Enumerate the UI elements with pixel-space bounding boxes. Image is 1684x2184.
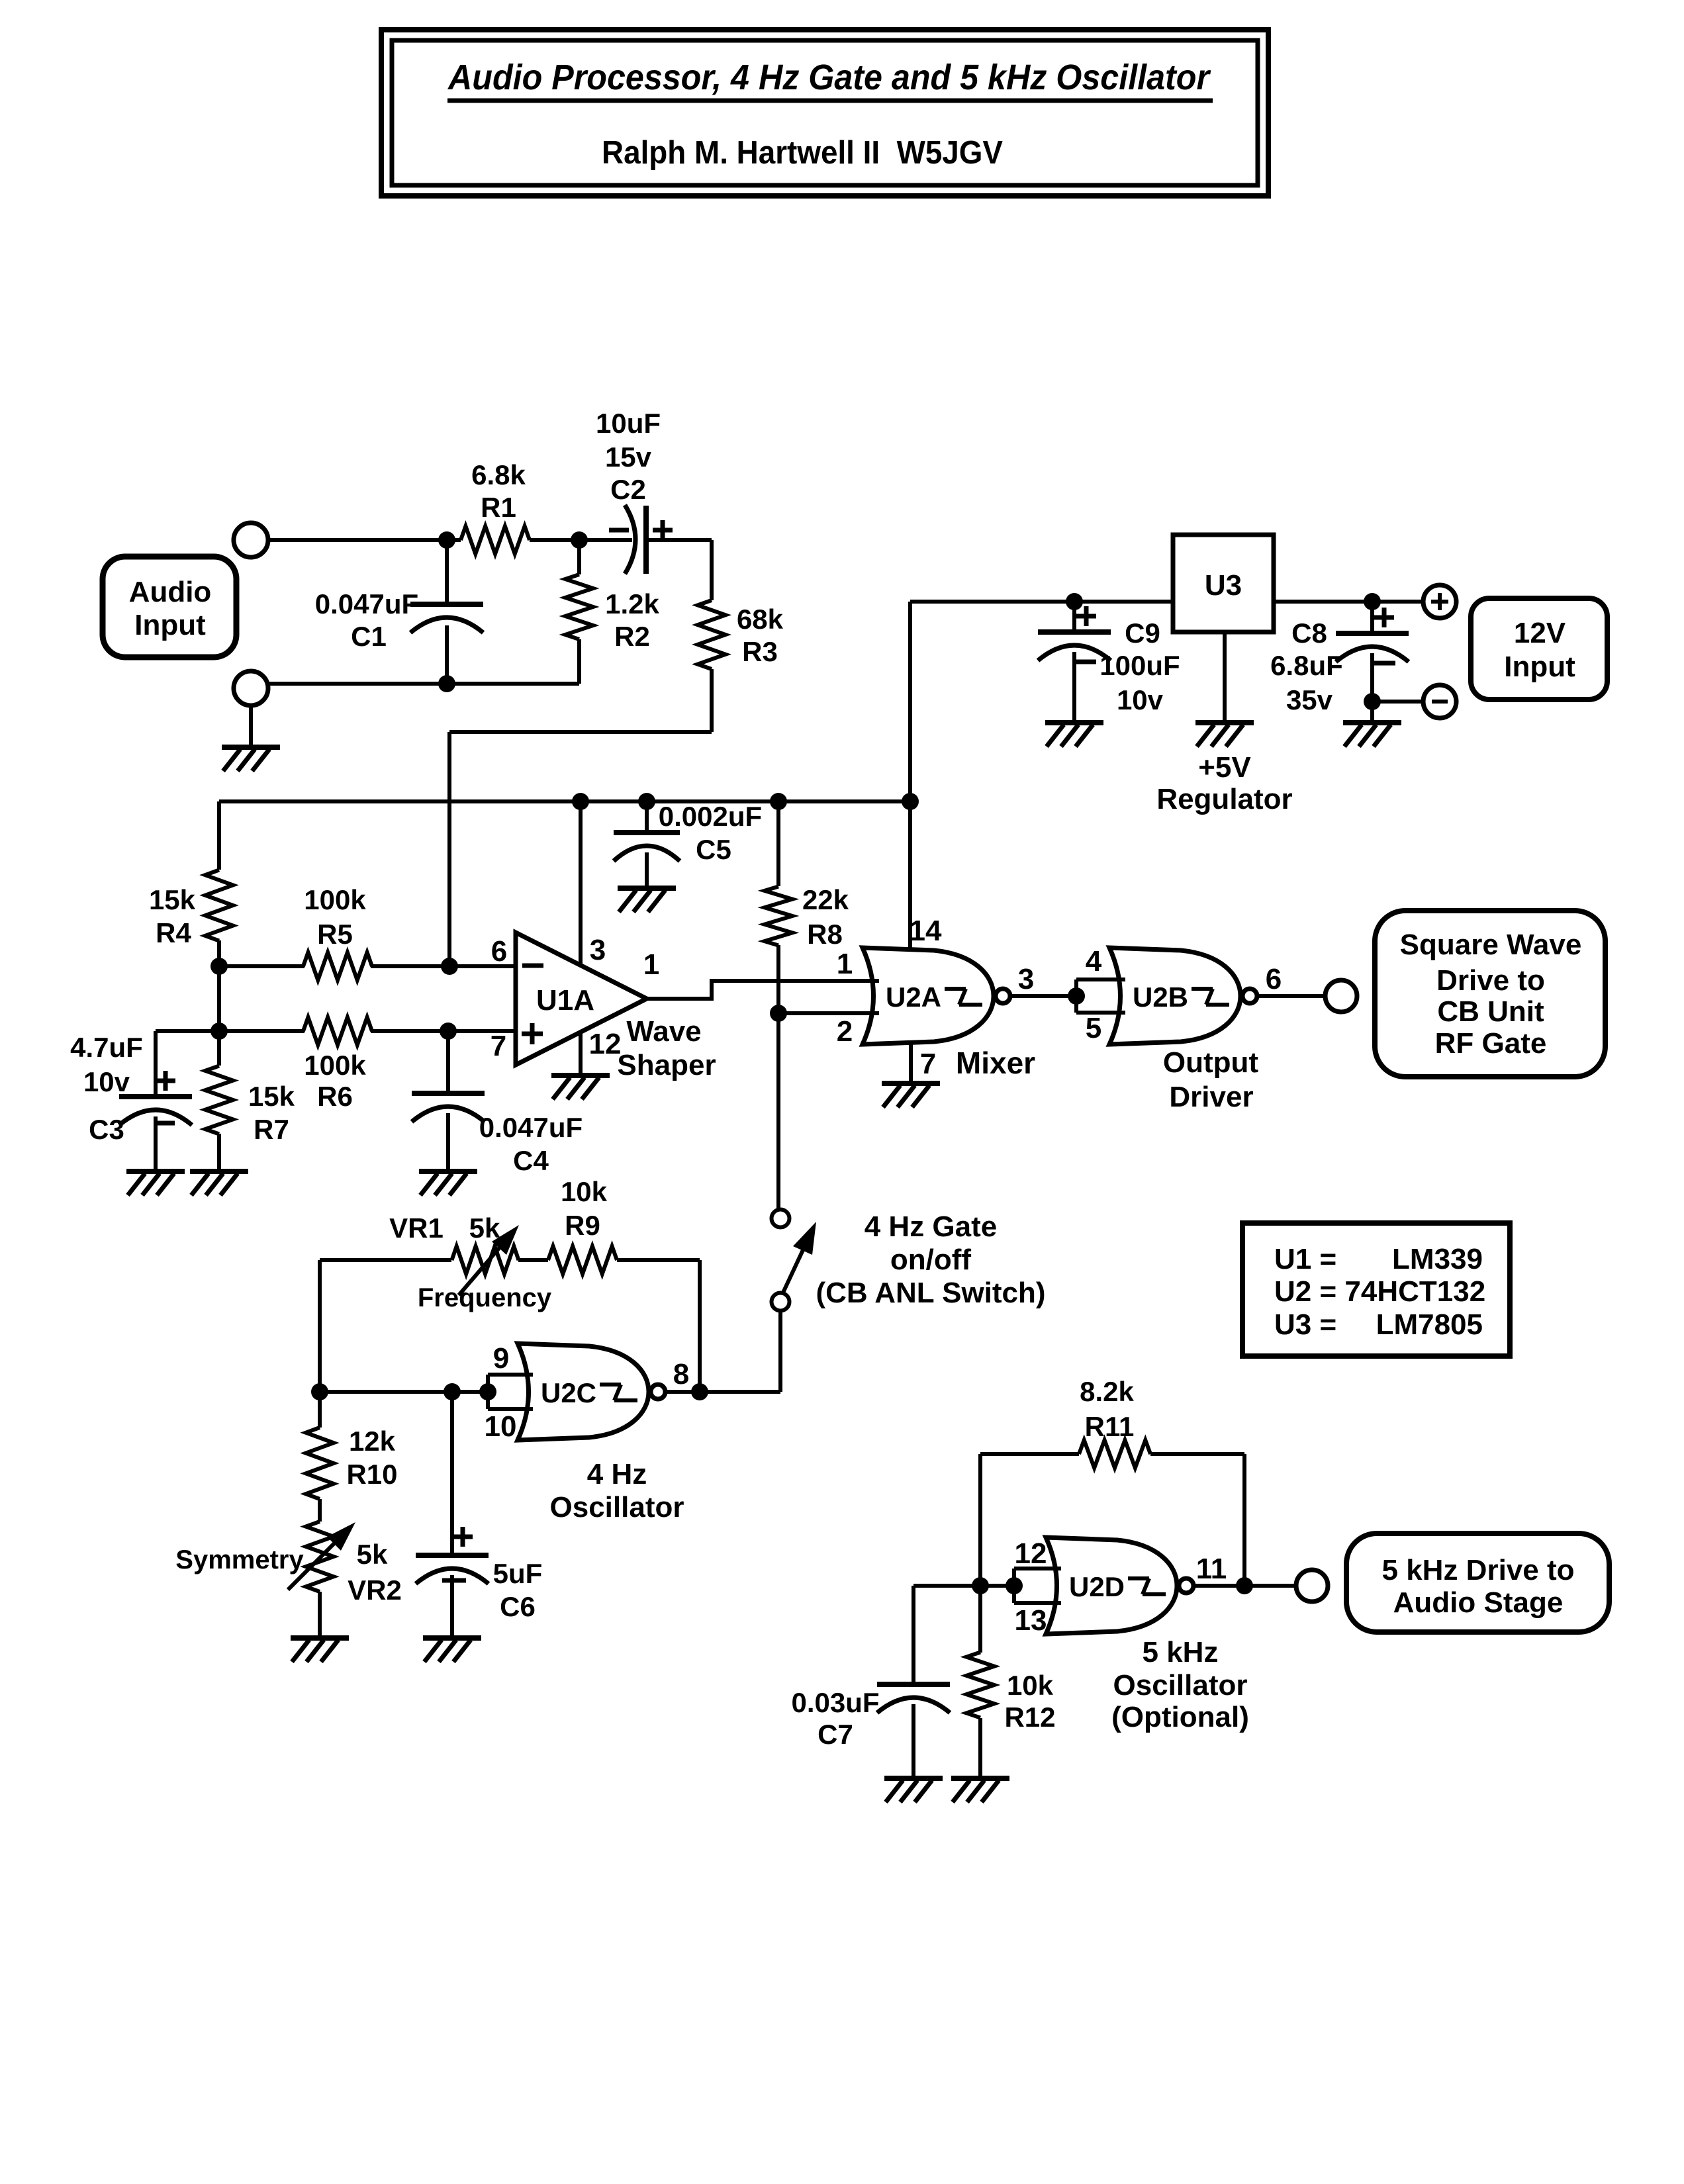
svg-text:(Optional): (Optional) (1111, 1701, 1249, 1733)
svg-text:0.047uF: 0.047uF (315, 588, 418, 619)
svg-text:5 kHz Drive to: 5 kHz Drive to (1382, 1554, 1575, 1586)
svg-text:RF Gate: RF Gate (1435, 1027, 1547, 1060)
svg-text:C7: C7 (818, 1719, 853, 1750)
svg-text:VR2: VR2 (348, 1574, 402, 1606)
svg-text:0.047uF: 0.047uF (479, 1112, 583, 1143)
svg-text:VR1: VR1 (389, 1212, 444, 1244)
svg-text:C8: C8 (1291, 617, 1327, 649)
svg-text:R12: R12 (1004, 1702, 1055, 1733)
svg-text:U1 =: U1 = (1274, 1243, 1336, 1275)
svg-text:LM339: LM339 (1392, 1243, 1483, 1275)
svg-text:13: 13 (1015, 1604, 1047, 1637)
svg-text:3: 3 (590, 934, 606, 966)
svg-text:Audio Stage: Audio Stage (1393, 1586, 1564, 1619)
svg-text:Frequency: Frequency (418, 1283, 552, 1312)
svg-text:7: 7 (491, 1030, 506, 1062)
svg-text:R3: R3 (742, 636, 778, 667)
svg-text:2: 2 (837, 1015, 853, 1048)
svg-text:6.8uF: 6.8uF (1270, 650, 1343, 681)
svg-text:4 Hz: 4 Hz (587, 1458, 647, 1490)
svg-text:10v: 10v (83, 1066, 130, 1097)
svg-text:15v: 15v (605, 441, 652, 473)
svg-text:R2: R2 (614, 621, 650, 652)
svg-text:on/off: on/off (890, 1244, 972, 1276)
svg-text:3: 3 (1018, 963, 1034, 995)
svg-text:14: 14 (910, 915, 942, 947)
svg-text:1.2k: 1.2k (605, 588, 659, 619)
svg-text:C4: C4 (513, 1145, 549, 1176)
svg-text:C3: C3 (89, 1114, 124, 1145)
svg-text:(CB ANL Switch): (CB ANL Switch) (816, 1277, 1045, 1309)
svg-text:U2D: U2D (1069, 1571, 1125, 1602)
svg-text:U2B: U2B (1133, 981, 1188, 1013)
svg-text:6: 6 (1266, 963, 1282, 995)
svg-text:5: 5 (1086, 1012, 1101, 1044)
svg-text:5k: 5k (357, 1539, 388, 1570)
svg-text:R5: R5 (317, 919, 353, 950)
svg-text:C6: C6 (500, 1591, 536, 1622)
svg-text:C2: C2 (610, 474, 646, 505)
svg-text:Oscillator: Oscillator (550, 1491, 684, 1524)
svg-text:Driver: Driver (1169, 1081, 1253, 1113)
svg-text:15k: 15k (248, 1081, 295, 1112)
svg-text:R9: R9 (565, 1210, 600, 1241)
svg-text:10v: 10v (1117, 684, 1164, 715)
svg-text:C1: C1 (351, 621, 387, 652)
svg-text:LM7805: LM7805 (1376, 1308, 1483, 1341)
svg-text:Drive to: Drive to (1436, 964, 1545, 997)
svg-text:Audio Processor, 4 Hz Gate and: Audio Processor, 4 Hz Gate and 5 kHz Osc… (447, 58, 1211, 97)
svg-text:0.03uF: 0.03uF (791, 1687, 879, 1718)
svg-text:5uF: 5uF (493, 1558, 543, 1589)
svg-text:Square Wave: Square Wave (1400, 929, 1582, 961)
svg-text:12: 12 (589, 1028, 622, 1060)
svg-text:35v: 35v (1286, 684, 1333, 715)
svg-text:5 kHz: 5 kHz (1143, 1636, 1219, 1668)
svg-text:Regulator: Regulator (1156, 783, 1292, 815)
svg-text:Audio: Audio (129, 576, 212, 608)
svg-text:R7: R7 (254, 1114, 289, 1145)
svg-text:100k: 100k (304, 884, 366, 915)
svg-text:6: 6 (491, 935, 507, 968)
svg-text:8: 8 (673, 1358, 689, 1390)
svg-text:22k: 22k (802, 884, 849, 915)
svg-text:CB Unit: CB Unit (1437, 995, 1544, 1028)
svg-text:C5: C5 (696, 834, 731, 865)
svg-text:1: 1 (643, 948, 659, 981)
svg-text:Shaper: Shaper (617, 1049, 716, 1081)
svg-text:Ralph M. Hartwell II W5JGV: Ralph M. Hartwell II W5JGV (602, 135, 1003, 171)
svg-text:6.8k: 6.8k (471, 459, 526, 490)
svg-text:Mixer: Mixer (956, 1046, 1035, 1080)
svg-text:8.2k: 8.2k (1080, 1376, 1134, 1407)
svg-text:Output: Output (1163, 1046, 1259, 1079)
svg-text:4: 4 (1086, 945, 1102, 978)
svg-text:R8: R8 (807, 919, 843, 950)
svg-text:10uF: 10uF (596, 408, 661, 439)
svg-text:U3: U3 (1205, 569, 1242, 602)
svg-text:Wave: Wave (626, 1015, 701, 1048)
svg-text:1: 1 (837, 948, 853, 980)
svg-text:12k: 12k (349, 1426, 396, 1457)
svg-text:U3 =: U3 = (1274, 1308, 1336, 1341)
svg-text:7: 7 (920, 1048, 936, 1080)
svg-text:U2 = 74HCT132: U2 = 74HCT132 (1274, 1275, 1485, 1308)
svg-text:U2A: U2A (886, 981, 941, 1013)
svg-text:U2C: U2C (541, 1377, 596, 1408)
svg-text:R4: R4 (156, 917, 191, 948)
svg-text:0.002uF: 0.002uF (659, 801, 762, 832)
svg-text:C9: C9 (1125, 617, 1160, 649)
svg-text:12V: 12V (1514, 617, 1566, 649)
svg-text:R1: R1 (481, 492, 516, 523)
svg-text:10: 10 (485, 1410, 517, 1443)
svg-text:U1A: U1A (536, 984, 594, 1017)
svg-text:9: 9 (493, 1342, 509, 1375)
svg-text:4 Hz Gate: 4 Hz Gate (865, 1210, 998, 1243)
svg-text:12: 12 (1015, 1537, 1047, 1570)
svg-text:100k: 100k (304, 1050, 366, 1081)
svg-text:R6: R6 (317, 1081, 353, 1112)
svg-text:Oscillator: Oscillator (1113, 1669, 1248, 1702)
svg-text:R10: R10 (346, 1459, 397, 1490)
svg-text:11: 11 (1196, 1553, 1227, 1585)
svg-text:100uF: 100uF (1099, 650, 1180, 681)
svg-text:+5V: +5V (1198, 751, 1251, 784)
svg-text:5k: 5k (469, 1212, 500, 1244)
svg-text:4.7uF: 4.7uF (70, 1032, 143, 1063)
svg-text:68k: 68k (737, 604, 784, 635)
svg-text:R11: R11 (1085, 1411, 1135, 1442)
svg-text:10k: 10k (561, 1176, 608, 1207)
svg-text:Input: Input (1504, 651, 1575, 683)
svg-text:Input: Input (134, 609, 206, 641)
svg-text:10k: 10k (1007, 1670, 1054, 1701)
svg-text:Symmetry: Symmetry (175, 1545, 304, 1574)
svg-text:15k: 15k (149, 884, 196, 915)
